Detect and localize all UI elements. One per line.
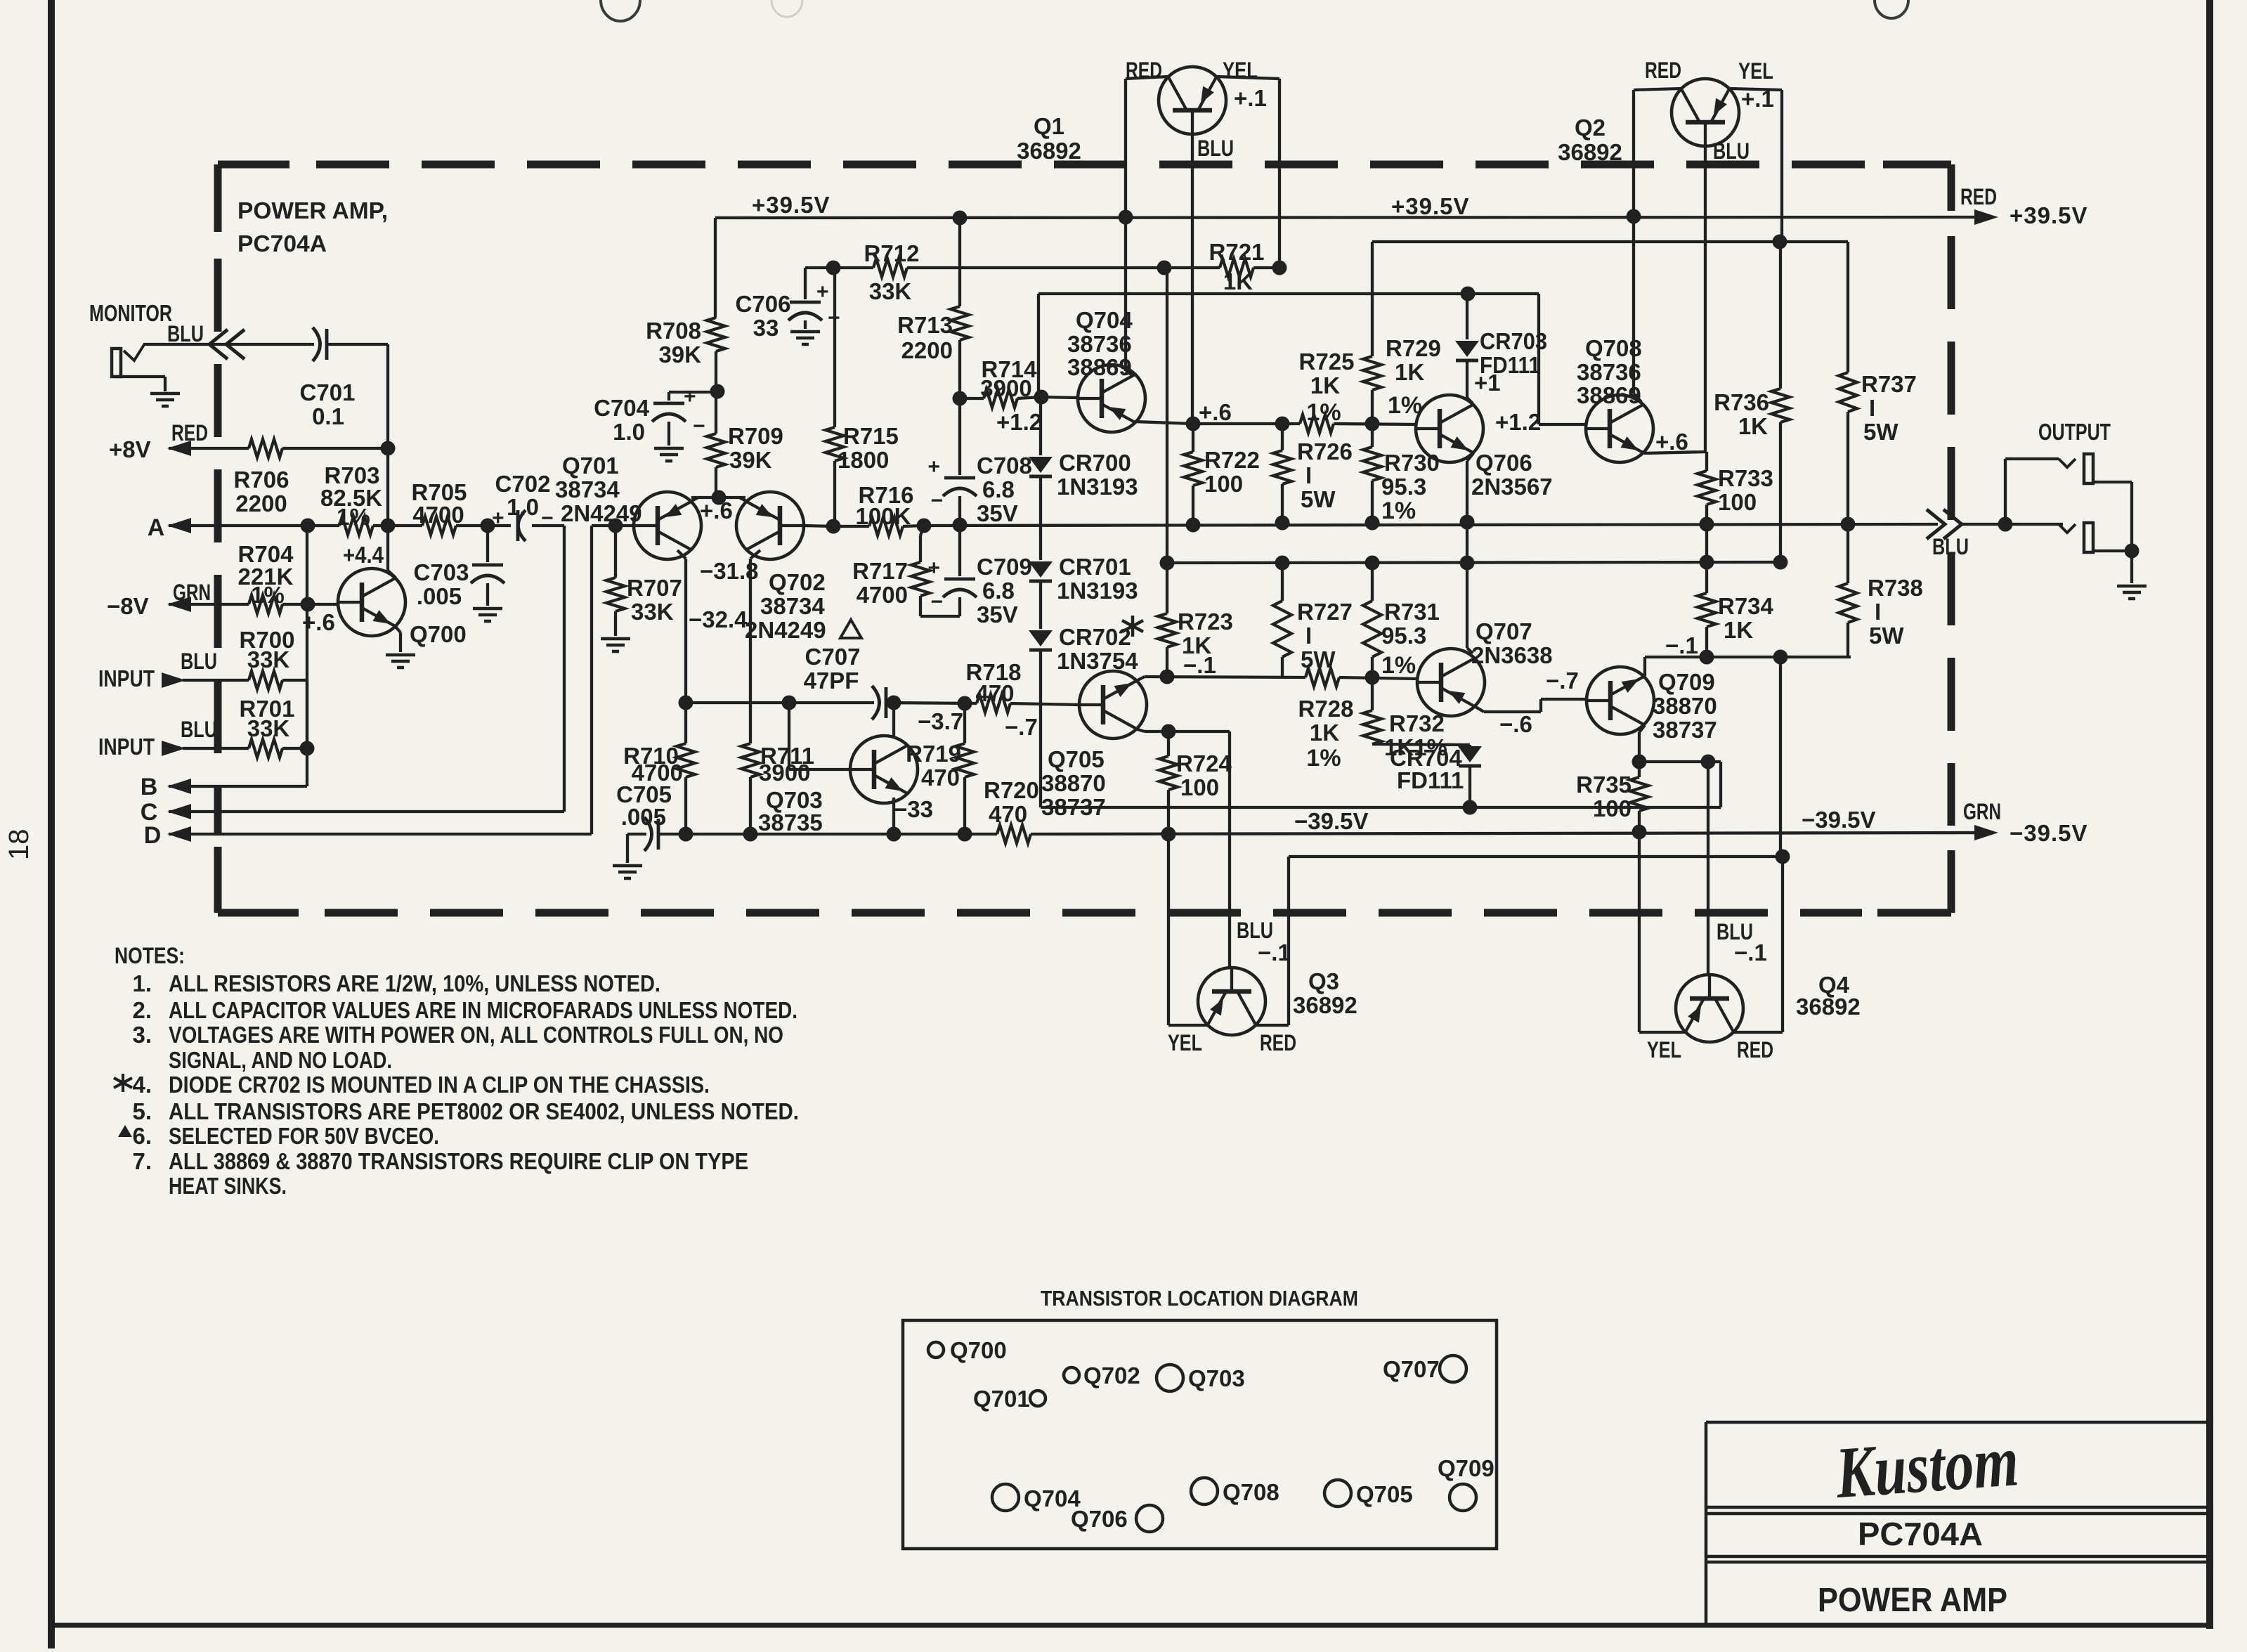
wire [1193,422,1300,425]
wire [1638,811,1641,832]
junction [1186,417,1201,431]
wire [1705,627,1708,657]
resistor R730 [1363,447,1381,481]
wire [1639,725,1645,732]
svg-text:ALL 38869 & 38870 TRANSIST: ALL 38869 & 38870 TRANSISTORS REQUIRE CL… [169,1148,748,1174]
board outline corner [218,909,299,917]
wire [1476,707,1484,712]
wire [1539,423,1587,426]
board outline (dashed) [316,161,1869,169]
svg-text:38869: 38869 [1067,354,1132,380]
wire [669,391,717,394]
wire [1466,461,1468,563]
capacitor C709 [944,578,975,581]
wire [1779,657,1782,857]
resistor R709 [707,434,725,467]
resistor R719 [956,743,974,777]
svg-text:ALL CAPACITOR VALUES ARE I: ALL CAPACITOR VALUES ARE IN MICROFARADS … [169,997,797,1023]
wire [714,218,717,318]
svg-text:5W: 5W [1301,486,1336,512]
junction [301,519,315,533]
junction [1773,555,1788,570]
wire [1167,731,1170,756]
svg-text:−31.8: −31.8 [700,558,759,584]
junction [712,490,727,505]
wire [788,703,790,769]
resistor R704 [249,595,282,613]
svg-text:38736: 38736 [1067,331,1132,357]
transistor Q709 [1587,667,1654,734]
resistor R700 [249,671,282,689]
wire [960,397,984,400]
svg-text:100: 100 [1718,489,1757,515]
wire [684,559,687,743]
junction [1365,417,1380,431]
svg-text:DIODE CR702 IS MOUNTED IN: DIODE CR702 IS MOUNTED IN A CLIP ON THE … [169,1072,710,1098]
wire [169,785,307,788]
resistor R716 [869,517,903,535]
arrowhead [167,597,191,612]
svg-text:I: I [1305,623,1312,649]
svg-text:R736: R736 [1714,389,1769,415]
svg-text:ALL TRANSISTORS ARE PET8002: ALL TRANSISTORS ARE PET8002 OR SE4002, U… [169,1098,799,1124]
junction [481,519,495,533]
resistor R732 [1363,710,1381,744]
diode CR704 [1458,746,1482,762]
junction [679,696,693,710]
junction [1700,555,1714,570]
svg-text:Q708: Q708 [1223,1479,1279,1505]
svg-text:2N4249: 2N4249 [745,617,826,643]
junction [1773,650,1788,665]
svg-text:−.1: −.1 [1665,632,1698,658]
wire [1228,731,1231,968]
svg-text:95.3: 95.3 [1381,474,1426,500]
scan hole [601,0,640,21]
page border right [2206,0,2213,1629]
board outline corner [214,164,222,232]
svg-text:R712: R712 [864,240,920,266]
wire [907,266,1220,269]
scan hole [771,0,802,17]
junction [1157,261,1172,275]
arrowhead [167,441,191,456]
svg-text:1%: 1% [1381,497,1416,524]
svg-text:Q700: Q700 [950,1337,1007,1363]
svg-text:Q705: Q705 [1356,1481,1413,1507]
wire [804,268,807,299]
svg-text:−: − [930,489,943,512]
svg-text:R728: R728 [1298,696,1354,722]
wire [1719,762,1722,807]
wire [684,777,687,834]
svg-text:0.1: 0.1 [312,403,344,429]
svg-text:38735: 38735 [758,809,823,835]
svg-text:YEL: YEL [1647,1037,1681,1062]
wire [592,524,634,527]
wire [1639,760,1721,763]
junction [953,211,968,226]
svg-text:I: I [1875,599,1881,625]
wire [563,526,566,812]
svg-text:+1.2: +1.2 [996,409,1042,435]
svg-text:R722: R722 [1204,447,1260,473]
svg-text:PC704A: PC704A [1858,1516,1983,1552]
wire [1372,744,1470,745]
output jack tip [2059,459,2076,467]
wire [1467,648,1473,653]
junction [1773,235,1787,249]
svg-text:6.: 6. [132,1123,152,1149]
wire [1468,745,1471,746]
wire [1339,677,1418,679]
svg-text:+.6: +.6 [1655,429,1688,455]
junction [1461,287,1476,301]
location circle Q703 [1157,1365,1183,1391]
wire [963,777,966,834]
wire [282,603,339,606]
diode CR703 [1455,341,1479,357]
wire [1638,832,1641,1032]
svg-text:RED: RED [1645,58,1681,83]
wire [306,526,308,786]
svg-text:Q702: Q702 [769,569,826,595]
wire [169,810,564,813]
arrowhead [1974,825,1998,840]
board outline (dashed) [214,259,222,833]
junction [381,441,396,456]
wire [686,701,874,704]
svg-text:C704: C704 [594,395,650,421]
wire [1166,268,1168,563]
svg-text:R709: R709 [728,423,783,449]
junction [300,741,315,756]
wire [590,526,593,834]
svg-text:D: D [144,822,162,849]
svg-text:CR701: CR701 [1059,554,1131,580]
svg-text:GRN: GRN [173,580,211,605]
board outline corner [214,847,222,913]
wire [1039,581,1042,629]
svg-text:−.7: −.7 [1005,714,1038,740]
diode CR702 [1029,630,1053,646]
svg-text:TRANSISTOR LOCATION DIAGRAM: TRANSISTOR LOCATION DIAGRAM [1041,1286,1358,1310]
wire [1138,729,1145,731]
wire [677,550,686,559]
wire [1135,422,1193,424]
wire [789,768,851,771]
wire [1230,968,1233,968]
svg-text:RED: RED [1260,1030,1296,1055]
svg-text:−.1: −.1 [1734,939,1767,965]
svg-text:3900: 3900 [759,760,810,786]
svg-text:INPUT: INPUT [98,734,155,760]
junction [381,519,396,533]
wire [958,496,961,525]
svg-text:1%: 1% [337,504,370,530]
wire [715,351,717,434]
junction [1460,556,1475,571]
ground [386,653,415,657]
page border bottom [51,1623,2210,1628]
capacitor C701 [313,327,320,361]
svg-text:1%: 1% [1306,745,1341,772]
wire [1334,424,1416,424]
wire [963,703,966,743]
location circle Q701 [1030,1391,1046,1406]
transistor Q3 [1198,968,1265,1035]
wire [614,526,617,578]
svg-text:RED: RED [171,420,208,445]
junction [1160,670,1175,684]
svg-text:Q709: Q709 [1438,1455,1494,1481]
transistor Q2 [1672,79,1739,146]
wire [183,747,249,750]
junction [1776,850,1790,864]
wire [1704,146,1707,452]
wire [2005,457,2059,460]
svg-text:R707: R707 [627,575,682,601]
transistor Q706 [1416,395,1483,462]
resistor R708 [707,318,725,351]
svg-text:2N4249: 2N4249 [561,500,642,526]
svg-text:5W: 5W [1863,419,1898,445]
svg-text:RED: RED [1737,1037,1773,1062]
svg-text:2N3567: 2N3567 [1471,474,1553,500]
svg-text:1N3754: 1N3754 [1057,648,1138,674]
svg-text:1K: 1K [1310,372,1340,398]
wire [903,526,924,526]
resistor R735 [1630,777,1648,811]
wire [1126,77,1168,79]
wire [386,526,389,571]
diode CR701 [1029,561,1053,578]
svg-text:Q703: Q703 [1188,1365,1245,1391]
svg-text:PC704A: PC704A [237,230,327,256]
svg-text:1K: 1K [1223,268,1253,294]
wire [1847,623,1849,657]
title block [1706,1512,2210,1516]
arrowhead [167,518,191,533]
transistor Q4 [1676,975,1743,1042]
output jack 2 [2084,523,2093,552]
resistor R726 [1273,450,1291,484]
capacitor C706 [790,301,821,304]
svg-text:Q1: Q1 [1034,113,1064,139]
svg-text:+.6: +.6 [302,609,335,635]
svg-text:100: 100 [1180,774,1219,800]
svg-text:5W: 5W [1869,623,1904,649]
svg-text:1.0: 1.0 [613,419,645,445]
resistor R717 [911,562,930,596]
asterisk mark [1122,616,1143,637]
junction [1161,724,1176,739]
wire [1031,833,1988,834]
ground [150,392,180,396]
svg-text:36892: 36892 [1293,992,1357,1018]
wire [1371,657,1374,710]
transistor Q708 [1586,395,1653,462]
svg-text:R720: R720 [984,777,1039,803]
wire [958,218,961,306]
svg-text:CR703: CR703 [1480,328,1547,354]
svg-text:+: + [816,280,829,304]
wire [691,497,698,501]
wire [2093,549,2132,552]
triangle mark [118,1125,132,1137]
resistor R736 [1771,389,1790,422]
svg-text:1%: 1% [251,582,285,608]
svg-text:+.6: +.6 [700,497,733,523]
resistor R718 [977,694,1010,713]
wire [1192,424,1194,452]
wire [1847,412,1849,524]
resistor R721 [1220,259,1253,277]
svg-text:OUTPUT: OUTPUT [2038,419,2111,445]
svg-text:Q700: Q700 [410,621,467,647]
svg-text:33K: 33K [631,599,674,625]
wire [1468,766,1471,807]
svg-text:−.1: −.1 [1258,939,1291,965]
svg-text:+8V: +8V [109,436,151,462]
wire [169,603,249,606]
resistor R738 [1839,583,1857,623]
svg-text:4700: 4700 [412,502,464,528]
wire [1466,294,1468,339]
asterisk mark [114,1074,132,1092]
svg-text:R738: R738 [1868,575,1923,601]
wire [1372,240,1848,243]
wire [1634,89,1681,90]
wire [532,524,564,527]
resistor R731 [1363,601,1381,657]
arrowhead [167,779,191,794]
wire [920,526,924,535]
capacitor C707 [872,686,880,720]
wire [1281,424,1284,450]
svg-text:1K: 1K [1724,617,1753,643]
transistor Q1 [1159,67,1226,134]
transistor Q705 [1079,671,1147,739]
resistor R723 [1158,613,1176,647]
title block [1706,1506,2210,1509]
svg-text:−: − [693,415,705,438]
svg-text:7.: 7. [132,1148,152,1174]
svg-text:+.1: +.1 [1234,85,1267,111]
svg-text:R737: R737 [1861,371,1917,397]
chevron connector [1943,509,1962,539]
wire [1645,656,1851,658]
svg-text:1.: 1. [132,970,152,996]
wire [169,447,249,450]
resistor R733 [1698,471,1716,505]
wire [1644,452,1707,453]
resistor R705 [422,516,456,535]
svg-text:R717: R717 [852,558,908,584]
board outline (dashed) [325,909,1862,917]
svg-text:2N3638: 2N3638 [1471,642,1553,668]
wire [1167,834,1170,1025]
ground [601,637,630,641]
wire [2093,481,2132,483]
transistor Q701 [634,492,701,559]
svg-text:BLU: BLU [167,321,204,346]
title block [1706,1421,2210,1424]
wire [804,526,833,526]
svg-text:HEAT SINKS.: HEAT SINKS. [169,1173,287,1199]
arrowhead [162,672,185,688]
svg-text:MONITOR: MONITOR [89,300,172,326]
svg-text:+1.2: +1.2 [1495,409,1541,435]
svg-text:Q705: Q705 [1048,746,1105,772]
wire [958,597,961,616]
svg-text:1K: 1K [1395,359,1424,385]
wire [1145,730,1230,733]
monitor jack [112,349,121,377]
svg-text:Q3: Q3 [1308,968,1339,994]
svg-text:GRN: GRN [1963,799,2001,824]
svg-text:RED: RED [1960,184,1997,209]
svg-text:Q706: Q706 [1476,450,1532,476]
wire [626,834,629,863]
wire [1191,134,1194,424]
svg-text:SIGNAL, AND NO LOAD.: SIGNAL, AND NO LOAD. [169,1047,392,1073]
svg-text:−39.5V: −39.5V [1294,808,1369,834]
svg-text:.005: .005 [417,583,462,609]
svg-text:+: + [927,455,940,479]
svg-text:Q2: Q2 [1575,115,1606,141]
svg-text:5.: 5. [132,1098,152,1124]
wire [805,266,873,269]
svg-text:YEL: YEL [1168,1030,1202,1055]
junction [1632,755,1647,769]
resistor R737 [1839,372,1857,412]
wire [1539,699,1542,712]
wire [739,497,746,501]
ground [473,607,502,611]
junction [1275,556,1290,571]
wire [919,596,922,616]
wire [749,777,752,834]
svg-text:38736: 38736 [1577,359,1641,385]
svg-text:−39.5V: −39.5V [1802,807,1876,833]
wire [833,461,836,526]
svg-text:BLU: BLU [1713,138,1750,164]
wire [1639,1031,1686,1034]
svg-text:1K: 1K [1310,720,1339,746]
junction [608,519,623,533]
svg-text:39K: 39K [729,447,772,473]
junction [1841,517,1856,532]
wire [659,833,997,835]
wire [1041,397,1077,398]
svg-text:R724: R724 [1176,750,1232,776]
svg-text:R706: R706 [234,467,289,493]
junction [1701,755,1716,769]
wire [1643,657,1646,676]
svg-text:1.0: 1.0 [507,494,539,520]
wire [833,268,836,427]
svg-text:1800: 1800 [838,447,889,473]
wire [1039,397,1042,455]
wire [1371,242,1374,356]
wire [1537,294,1540,424]
svg-text:INPUT: INPUT [98,665,155,691]
wire [833,525,869,528]
wire [282,447,388,450]
svg-text:Kustom: Kustom [1832,1420,2021,1514]
svg-text:−33: −33 [894,796,933,822]
